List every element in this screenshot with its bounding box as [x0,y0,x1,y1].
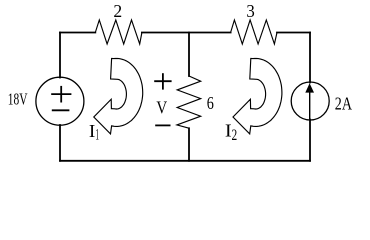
resistor R=6 vertical zigzag [177,76,201,128]
wire right vertical lower [309,120,311,161]
svg-text:3: 3 [246,1,254,21]
voltage source V1 circle [36,77,84,125]
voltage source plus sign [51,86,71,103]
current source arrowhead [305,83,314,92]
wire right vertical upper [309,33,311,83]
node voltage polarity plus (across R6) [154,73,171,89]
current source I=2A circle [291,82,329,120]
resistor R=2 zigzag [95,20,142,44]
mesh current arrow I2 [233,59,282,134]
svg-text:2: 2 [113,1,122,21]
wire bottom horizontal [60,160,310,162]
mesh current arrow I1 [94,59,143,134]
wire middle vertical lower [188,128,190,161]
resistor R=3 zigzag [231,20,277,44]
svg-text:I: I [89,121,95,141]
svg-text:2A: 2A [335,94,352,114]
svg-text:2: 2 [232,127,238,144]
svg-text:6: 6 [207,93,214,113]
wire middle vertical upper [188,33,190,77]
wire top-middle horizontal [142,32,231,34]
svg-text:18V: 18V [8,90,28,109]
wire top-right horizontal [277,32,310,34]
wire left vertical upper [59,33,61,78]
wire top-left horizontal [60,32,95,34]
voltage source minus sign [52,109,70,111]
wire left vertical lower [59,125,61,161]
svg-text:1: 1 [96,126,100,143]
current source arrow shaft [309,90,311,119]
node voltage polarity minus (across R6) [155,124,170,126]
svg-text:V: V [156,97,167,117]
